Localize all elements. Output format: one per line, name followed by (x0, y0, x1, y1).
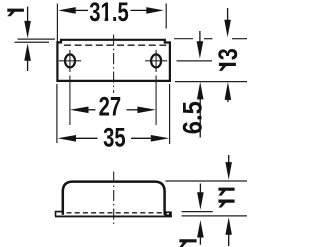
dimension 35 left arrow (58, 135, 77, 142)
bottom edge right extension line (175, 81, 247, 83)
rect left edge extension line down (56, 84, 58, 143)
base plate top extension line right (182, 211, 213, 213)
top view hidden edge (dashed) (64, 44, 168, 46)
dimension 27 right arrow (137, 107, 156, 114)
dimension 11 up arrow (225, 217, 232, 235)
side view base right foot (164, 211, 171, 216)
dimension 1 (plate) up arrow (197, 220, 204, 238)
hole left vertical center line (69, 50, 71, 72)
dimension 1 (lip) label (7, 9, 24, 17)
svg-text:31.5: 31.5 (89, 0, 128, 28)
dimension 31.5 right arrow (146, 7, 164, 14)
hole right horizontal center line (145, 60, 167, 62)
top edge right extension line (segments) (174, 38, 193, 40)
hole right (151, 54, 161, 67)
side view vertical center line (113, 172, 115, 225)
dimension 1 (lip) up arrow (24, 43, 31, 61)
dimension 1 (plate) down arrow (199, 184, 201, 195)
side view body outline (63, 182, 165, 215)
dimension 6.5 up arrow (197, 82, 204, 100)
side view base left foot (56, 212, 64, 217)
svg-text:6.5: 6.5 (178, 101, 208, 134)
side view hidden base top (dashed) (67, 212, 163, 214)
base plate bottom extension line right (182, 215, 248, 217)
hole right vertical center line (155, 50, 157, 72)
hole axis right extension line (177, 60, 212, 62)
hole right extension line down (155, 76, 157, 126)
dimension 27 left arrow (70, 107, 89, 114)
dimension 1 (lip) lower extension line (15, 41, 50, 43)
dimension 13 up arrow (225, 82, 232, 100)
dimension 1 (lip) down arrow (27, 7, 29, 22)
hole left extension line down (69, 76, 71, 126)
svg-text:27: 27 (99, 92, 122, 123)
dimension 31.5 left extension line (56, 4, 58, 42)
dimension 1 (lip) upper extension line (18, 38, 56, 40)
svg-text:35: 35 (103, 123, 126, 154)
rect right edge extension line down (169, 84, 171, 144)
dimension 31.5 right extension line (165, 4, 167, 29)
hole left horizontal center line (59, 60, 81, 62)
dimension 13 down arrow (227, 8, 229, 22)
top view vertical center line (113, 35, 115, 93)
side view base bottom edge (55, 215, 172, 217)
dimension 11 label (218, 188, 234, 208)
dimension 31.5 left arrow (58, 7, 75, 14)
dimension 11 down arrow (228, 155, 230, 164)
side view top extension line right (166, 180, 248, 182)
dimension 35 right arrow (151, 135, 170, 142)
svg-text:3: 3 (214, 48, 244, 60)
hole left (65, 54, 75, 67)
top view housing outline (56, 40, 170, 81)
dimension 1 (plate) label (179, 239, 196, 247)
dimension 6.5 down arrow (199, 31, 201, 43)
